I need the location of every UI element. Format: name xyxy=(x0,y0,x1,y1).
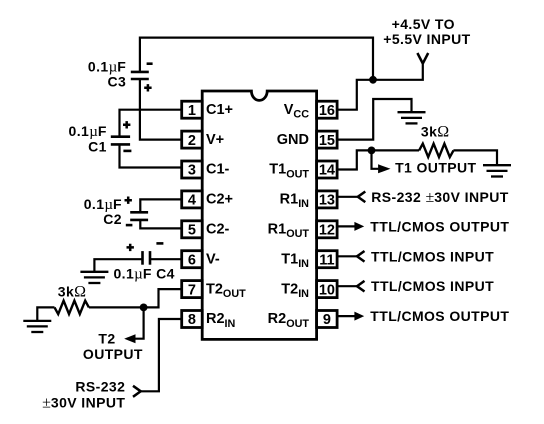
polarity plus C2 xyxy=(125,197,132,204)
svg-text:C2+: C2+ xyxy=(206,192,233,208)
svg-text:C3: C3 xyxy=(107,74,126,90)
svg-text:RS-232 ±30V INPUT: RS-232 ±30V INPUT xyxy=(371,189,508,206)
wire pin 1 C1+ to capacitor C1 xyxy=(120,110,182,137)
svg-text:TTL/CMOS INPUT: TTL/CMOS INPUT xyxy=(371,278,494,294)
resistor R T2 3k ohm xyxy=(54,301,88,314)
svg-text:RS-232: RS-232 xyxy=(75,378,125,394)
arrow TTL/CMOS input pin 11 (open left) xyxy=(357,251,365,262)
pin box 10 xyxy=(317,281,338,298)
arrow TTL/CMOS output pin 12 (solid right) xyxy=(354,222,364,231)
wire T2 node down to output arrow xyxy=(135,307,144,338)
ground symbol below C4 xyxy=(80,272,108,283)
pin box 1 xyxy=(182,101,203,118)
wire pin 13 R1IN xyxy=(337,196,358,198)
svg-text:C2-: C2- xyxy=(206,222,230,238)
polarity plus C3 xyxy=(144,84,151,91)
wire pin 4 C2+ to capacitor C2 xyxy=(140,199,181,212)
svg-text:16: 16 xyxy=(319,103,335,119)
svg-text:13: 13 xyxy=(319,193,335,209)
capacitor C3 plates xyxy=(131,72,149,79)
svg-text:1: 1 xyxy=(188,103,196,119)
wire pin 6 V- to capacitor C4 xyxy=(150,258,182,260)
svg-text:6: 6 xyxy=(188,252,196,268)
polarity plus C4 xyxy=(127,244,134,251)
arrow T1 OUTPUT (solid right) xyxy=(378,164,390,173)
arrow T2 OUTPUT (solid left) xyxy=(124,334,135,343)
pin box 14 xyxy=(317,161,338,178)
svg-text:12: 12 xyxy=(319,223,335,239)
svg-text:TTL/CMOS OUTPUT: TTL/CMOS OUTPUT xyxy=(370,218,509,234)
svg-text:2: 2 xyxy=(188,133,196,149)
pin box 9 xyxy=(317,311,338,328)
ground symbol left of T2 resistor xyxy=(23,321,51,332)
polarity plus C1 xyxy=(123,121,130,128)
arrow TTL/CMOS output pin 9 (solid right) xyxy=(354,312,364,321)
svg-text:0.1µF C4: 0.1µF C4 xyxy=(114,266,175,283)
svg-text:C1-: C1- xyxy=(206,162,230,178)
svg-text:15: 15 xyxy=(319,133,335,149)
pin box 5 xyxy=(182,221,203,238)
svg-text:C2: C2 xyxy=(103,211,122,227)
svg-text:7: 7 xyxy=(188,282,196,298)
ground symbol right of T1 resistor xyxy=(483,165,511,176)
pin box 4 xyxy=(182,191,203,208)
node T1 junction dot xyxy=(368,147,376,155)
capacitor C4 plates (horizontal cap) xyxy=(143,251,151,265)
svg-text:+4.5V TO: +4.5V TO xyxy=(392,16,455,32)
svg-text:8: 8 xyxy=(188,312,196,328)
resistor R T1 3k ohm xyxy=(419,144,453,157)
svg-text:T2: T2 xyxy=(98,330,115,346)
wire T2 node to resistor xyxy=(89,306,144,308)
node VCC junction dot xyxy=(369,76,377,84)
svg-text:V-: V- xyxy=(206,251,220,267)
wire pin 10 T2IN xyxy=(337,285,357,287)
wire pin 11 T1IN xyxy=(337,255,357,257)
input terminal Y symbol +4.5V/+5.5V xyxy=(417,53,428,64)
ground symbol near pin 15 xyxy=(398,112,426,123)
pin box 7 xyxy=(182,281,203,298)
pin box 15 xyxy=(317,131,338,148)
svg-text:TTL/CMOS OUTPUT: TTL/CMOS OUTPUT xyxy=(370,308,509,324)
polarity minus C2 xyxy=(126,224,133,227)
svg-text:3kΩ: 3kΩ xyxy=(421,124,449,141)
svg-text:4: 4 xyxy=(188,193,196,209)
svg-text:14: 14 xyxy=(319,163,335,179)
svg-text:V+: V+ xyxy=(206,132,224,148)
pin box 11 xyxy=(317,251,338,268)
svg-text:GND: GND xyxy=(277,132,309,148)
wire resistor to left ground xyxy=(37,307,54,321)
wire C4 to ground xyxy=(94,259,142,272)
wire pin 14 T1OUT up to T1 node xyxy=(337,150,372,169)
wire resistor to right ground xyxy=(453,150,497,165)
wire pin 9 R2OUT xyxy=(337,315,355,317)
arrow TTL/CMOS input pin 10 (open left) xyxy=(357,281,365,292)
pin box 3 xyxy=(182,161,203,178)
node T2 junction dot xyxy=(140,304,148,312)
svg-text:3kΩ: 3kΩ xyxy=(58,284,86,301)
polarity minus C1 xyxy=(123,150,131,153)
svg-text:+5.5V INPUT: +5.5V INPUT xyxy=(383,31,470,47)
wire pin 8 R2IN down to RS-232 input xyxy=(141,319,182,391)
wire junction to +5V input terminal xyxy=(373,62,423,80)
svg-text:TTL/CMOS INPUT: TTL/CMOS INPUT xyxy=(371,248,494,264)
svg-text:9: 9 xyxy=(323,312,331,328)
svg-text:10: 10 xyxy=(319,282,335,298)
capacitor C2 plates xyxy=(130,212,148,220)
wire C1 bottom to pin 3 C1- xyxy=(120,144,182,167)
wire T1 node to resistor xyxy=(372,149,420,151)
svg-text:11: 11 xyxy=(319,252,334,268)
svg-text:C1+: C1+ xyxy=(206,102,233,118)
wire pin 12 R1OUT xyxy=(337,225,355,227)
polarity minus C3 xyxy=(147,62,153,65)
svg-text:5: 5 xyxy=(188,223,196,239)
wire pin 15 GND to ground xyxy=(337,99,412,140)
svg-text:T1 OUTPUT: T1 OUTPUT xyxy=(395,159,476,175)
wire C2 bottom to pin 5 C2- xyxy=(140,220,181,229)
wire T1 node down to output arrow xyxy=(372,150,379,168)
op IC body MAX232 outline with notch xyxy=(202,91,316,339)
svg-text:OUTPUT: OUTPUT xyxy=(83,346,143,362)
wire top VCC rail from C3 to corner above junction xyxy=(140,38,373,80)
pin box 16 xyxy=(317,101,338,118)
wire junction to pin 16 VCC xyxy=(337,80,373,110)
arrow RS-232 input to pin 13 (open left) xyxy=(358,192,366,203)
pin box 8 xyxy=(182,311,203,328)
polarity minus C4 xyxy=(156,242,163,245)
wire pin 7 T2OUT down to T2 node xyxy=(144,289,182,307)
pin box 12 xyxy=(317,221,338,238)
pin box 6 xyxy=(182,251,203,268)
pin box 2 xyxy=(182,131,203,148)
arrow RS-232 input to pin 8 (open right) xyxy=(133,386,141,397)
svg-text:±30V INPUT: ±30V INPUT xyxy=(42,394,125,411)
pin box 13 xyxy=(317,191,338,208)
svg-text:3: 3 xyxy=(188,163,196,179)
svg-text:C1: C1 xyxy=(88,139,107,155)
wire C3 bottom to pin 2 V+ xyxy=(140,79,182,140)
capacitor C1 plates xyxy=(111,137,130,145)
